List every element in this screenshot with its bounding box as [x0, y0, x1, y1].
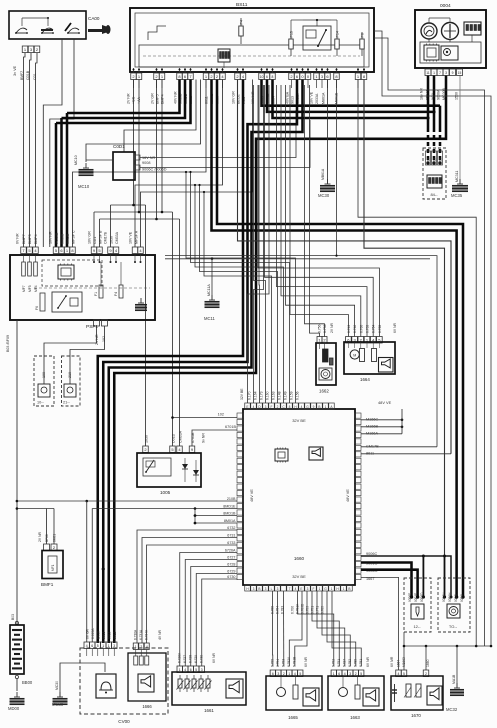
- svg-text:8MD1B: 8MD1B: [223, 512, 236, 516]
- svg-text:102: 102: [102, 336, 106, 342]
- svg-text:6.754: 6.754: [276, 606, 280, 614]
- svg-text:6733: 6733: [227, 541, 235, 545]
- svg-text:MF5: MF5: [28, 285, 32, 292]
- svg-text:MC10: MC10: [74, 155, 78, 165]
- svg-text:1: 1: [108, 644, 110, 648]
- svg-text:6728: 6728: [227, 563, 235, 567]
- svg-text:BMF1: BMF1: [41, 582, 54, 587]
- svg-text:TO--: TO--: [449, 624, 458, 629]
- svg-text:MC35: MC35: [451, 193, 463, 198]
- svg-text:6.706: 6.706: [291, 606, 295, 614]
- svg-text:F1: F1: [94, 292, 98, 296]
- svg-text:6.753: 6.753: [306, 606, 310, 614]
- svg-text:CD1: CD1: [93, 237, 97, 244]
- svg-text:6.755: 6.755: [271, 606, 275, 614]
- svg-text:CM33A: CM33A: [115, 231, 119, 244]
- svg-text:6.734A: 6.734A: [145, 629, 149, 640]
- svg-text:F15: F15: [290, 31, 294, 38]
- svg-text:16V GR: 16V GR: [88, 231, 92, 244]
- svg-text:3: 3: [253, 587, 255, 591]
- svg-text:6.756: 6.756: [318, 324, 322, 333]
- svg-text:11: 11: [426, 71, 430, 75]
- svg-text:10: 10: [260, 75, 264, 79]
- svg-text:6V NR: 6V NR: [304, 656, 308, 667]
- svg-text:6V GR: 6V GR: [86, 628, 90, 639]
- svg-text:16V VE: 16V VE: [310, 91, 314, 104]
- svg-text:7: 7: [439, 71, 441, 75]
- svg-text:MD00: MD00: [8, 706, 20, 711]
- svg-text:CD1: CD1: [33, 73, 37, 80]
- svg-text:4: 4: [295, 587, 297, 591]
- svg-text:9: 9: [313, 405, 315, 409]
- svg-text:6.730: 6.730: [200, 655, 204, 663]
- svg-text:1663: 1663: [350, 715, 360, 720]
- svg-text:2V NR: 2V NR: [330, 322, 334, 333]
- svg-text:MC11: MC11: [204, 316, 216, 321]
- svg-text:9013: 9013: [102, 631, 106, 639]
- svg-text:9012B: 9012B: [66, 233, 70, 244]
- svg-text:1661: 1661: [204, 708, 214, 713]
- svg-text:9v NR: 9v NR: [202, 433, 206, 443]
- svg-text:6.156: 6.156: [296, 391, 300, 400]
- svg-text:E: E: [246, 405, 248, 409]
- svg-text:1665: 1665: [288, 715, 298, 720]
- svg-text:8M01: 8M01: [53, 534, 57, 542]
- svg-text:6.173: 6.173: [260, 391, 264, 400]
- svg-text:4V NR: 4V NR: [158, 629, 162, 640]
- svg-text:48V VE: 48V VE: [250, 489, 254, 502]
- svg-text:18v NR: 18v NR: [420, 88, 424, 100]
- svg-text:9013: 9013: [291, 96, 295, 104]
- svg-text:1030: 1030: [145, 435, 149, 443]
- svg-text:6.730A: 6.730A: [134, 629, 138, 640]
- svg-text:MC30: MC30: [52, 702, 64, 707]
- svg-text:21--: 21--: [63, 401, 70, 405]
- svg-text:1: 1: [343, 587, 345, 591]
- svg-text:1030: 1030: [110, 236, 114, 244]
- svg-text:6V NR: 6V NR: [366, 656, 370, 667]
- svg-text:6.148: 6.148: [278, 391, 282, 400]
- svg-text:F4: F4: [114, 292, 118, 296]
- svg-text:9006C /9006D: 9006C /9006D: [142, 168, 167, 172]
- svg-text:MPSF C: MPSF C: [72, 230, 76, 244]
- svg-text:MB61A: MB61A: [321, 168, 325, 180]
- svg-text:9012: 9012: [108, 631, 112, 639]
- svg-text:1: 1: [102, 644, 104, 648]
- svg-text:8: 8: [272, 75, 274, 79]
- svg-text:6.729: 6.729: [194, 655, 198, 663]
- svg-text:M: M: [353, 353, 356, 357]
- svg-text:210: 210: [68, 372, 72, 378]
- svg-text:MC30: MC30: [318, 193, 330, 198]
- svg-text:BMF4: BMF4: [161, 94, 165, 104]
- svg-text:6V NR: 6V NR: [393, 322, 397, 333]
- svg-text:9013: 9013: [427, 158, 431, 165]
- svg-text:9012: 9012: [113, 631, 117, 639]
- svg-text:8611: 8611: [205, 96, 209, 104]
- svg-text:4: 4: [301, 405, 303, 409]
- svg-text:5: 5: [97, 644, 99, 648]
- svg-text:1: 1: [325, 405, 327, 409]
- svg-text:1: 1: [331, 587, 333, 591]
- svg-text:MC311: MC311: [455, 171, 459, 182]
- svg-text:0004: 0004: [440, 3, 451, 9]
- svg-text:1: 1: [319, 587, 321, 591]
- svg-text:B: B: [318, 405, 320, 409]
- svg-text:6.727: 6.727: [183, 655, 187, 663]
- svg-text:1: 1: [135, 645, 137, 649]
- svg-text:48V VE: 48V VE: [346, 489, 350, 502]
- svg-text:E: E: [300, 587, 302, 591]
- svg-text:32V BE: 32V BE: [240, 388, 244, 400]
- svg-text:9006I: 9006I: [454, 594, 458, 602]
- svg-text:6.754: 6.754: [372, 325, 376, 333]
- svg-text:B: B: [258, 587, 260, 591]
- svg-text:6.739: 6.739: [366, 325, 370, 333]
- svg-text:B03 /BF09: B03 /BF09: [6, 335, 10, 352]
- svg-text:F6: F6: [35, 306, 39, 310]
- svg-text:6.163: 6.163: [272, 391, 276, 400]
- svg-text:3: 3: [445, 71, 447, 75]
- svg-text:3: 3: [307, 587, 309, 591]
- svg-text:1: 1: [433, 71, 435, 75]
- svg-text:6.149: 6.149: [284, 391, 288, 400]
- svg-text:9001F: 9001F: [414, 593, 418, 602]
- svg-text:BMF4: BMF4: [34, 234, 38, 244]
- svg-text:10V NR: 10V NR: [251, 91, 255, 104]
- svg-text:1667: 1667: [397, 660, 401, 667]
- svg-text:3v VE: 3v VE: [13, 65, 17, 76]
- svg-text:6.758: 6.758: [323, 324, 327, 333]
- svg-text:6.703D: 6.703D: [301, 603, 305, 614]
- svg-text:9001H: 9001H: [448, 592, 452, 602]
- svg-text:MF7: MF7: [22, 285, 26, 292]
- svg-text:MC10: MC10: [78, 184, 90, 189]
- svg-text:MF4: MF4: [34, 285, 38, 292]
- svg-text:6.771: 6.771: [316, 606, 320, 614]
- svg-text:4: 4: [253, 405, 255, 409]
- svg-text:6.728: 6.728: [189, 655, 193, 663]
- svg-text:F4: F4: [240, 20, 244, 24]
- svg-text:6.751: 6.751: [311, 606, 315, 614]
- svg-text:MC30: MC30: [55, 681, 59, 690]
- svg-text:6.159: 6.159: [290, 391, 294, 400]
- svg-text:6726A: 6726A: [225, 549, 236, 553]
- svg-text:48V VE: 48V VE: [378, 400, 392, 405]
- svg-text:9006H: 9006H: [442, 592, 446, 602]
- svg-text:210B: 210B: [227, 497, 236, 501]
- svg-text:9: 9: [452, 71, 454, 75]
- svg-text:2: 2: [140, 645, 142, 649]
- svg-text:8M01A: 8M01A: [224, 519, 236, 523]
- svg-text:6731: 6731: [227, 534, 235, 538]
- svg-text:6.760: 6.760: [359, 325, 363, 333]
- svg-text:F: F: [271, 405, 273, 409]
- svg-text:6.783: 6.783: [281, 606, 285, 614]
- svg-text:9006E: 9006E: [408, 593, 412, 602]
- svg-text:1660: 1660: [426, 659, 430, 667]
- svg-text:6.160: 6.160: [266, 391, 270, 400]
- svg-text:XC10B: XC10B: [55, 232, 59, 244]
- svg-text:6727: 6727: [227, 556, 235, 560]
- svg-text:BMF5: BMF5: [28, 234, 32, 244]
- svg-text:MF1: MF1: [51, 564, 55, 571]
- svg-text:3: 3: [113, 644, 115, 648]
- svg-text:6.781A: 6.781A: [296, 603, 300, 614]
- svg-text:1005: 1005: [160, 490, 171, 495]
- svg-text:16V VE: 16V VE: [129, 231, 133, 244]
- svg-text:9006D: 9006D: [420, 592, 424, 602]
- svg-text:6V NR: 6V NR: [212, 652, 216, 663]
- svg-text:9013B: 9013B: [61, 233, 65, 244]
- svg-text:CM17B: CM17B: [104, 231, 108, 244]
- svg-text:MA1B: MA1B: [452, 674, 456, 684]
- svg-text:1662: 1662: [319, 389, 329, 394]
- svg-text:2V GR: 2V GR: [151, 93, 155, 104]
- svg-text:6729: 6729: [227, 570, 235, 574]
- svg-text:6V MR: 6V MR: [390, 656, 394, 667]
- svg-text:6V NR: 6V NR: [16, 233, 20, 244]
- svg-text:L: L: [271, 587, 273, 591]
- svg-text:MC32: MC32: [446, 707, 458, 712]
- svg-text:6.728: 6.728: [378, 325, 382, 333]
- svg-text:84--: 84--: [430, 192, 438, 197]
- svg-text:12--: 12--: [413, 624, 421, 629]
- svg-text:B03: B03: [11, 614, 15, 620]
- svg-text:MPSF B: MPSF B: [99, 230, 103, 244]
- svg-text:6.170: 6.170: [248, 391, 252, 400]
- svg-text:8MD1E: 8MD1E: [223, 505, 236, 509]
- svg-text:32V BE: 32V BE: [292, 418, 306, 423]
- svg-text:6701B: 6701B: [191, 432, 195, 443]
- svg-text:B: B: [348, 587, 350, 591]
- svg-text:6732: 6732: [227, 526, 235, 530]
- svg-text:1670: 1670: [411, 713, 421, 718]
- svg-text:2V NR: 2V NR: [38, 531, 42, 542]
- svg-text:2: 2: [277, 405, 279, 409]
- svg-text:CM33A: CM33A: [179, 430, 183, 443]
- svg-text:1660: 1660: [294, 556, 305, 561]
- svg-text:2V NR: 2V NR: [127, 93, 131, 104]
- svg-text:D01D: D01D: [172, 433, 176, 443]
- svg-text:6701B: 6701B: [225, 425, 236, 429]
- svg-text:M861A: M861A: [322, 92, 326, 104]
- svg-text:8: 8: [289, 405, 291, 409]
- svg-text:15: 15: [458, 71, 462, 75]
- svg-text:3: 3: [265, 587, 267, 591]
- svg-text:6.749: 6.749: [347, 325, 351, 333]
- svg-text:F6: F6: [361, 33, 365, 37]
- svg-text:6.164: 6.164: [254, 391, 258, 400]
- svg-text:BB00: BB00: [22, 680, 33, 685]
- svg-text:F14: F14: [336, 31, 340, 38]
- svg-text:2033A: 2033A: [315, 93, 319, 104]
- svg-text:16V NR: 16V NR: [142, 156, 156, 160]
- svg-text:100: 100: [42, 372, 46, 378]
- svg-text:7: 7: [289, 587, 291, 591]
- svg-text:4: 4: [146, 645, 148, 649]
- svg-text:6730: 6730: [227, 575, 235, 579]
- svg-text:1664: 1664: [360, 377, 370, 382]
- svg-text:BMF7: BMF7: [22, 234, 26, 244]
- svg-text:9008: 9008: [142, 161, 150, 165]
- svg-text:40V BA: 40V BA: [286, 91, 290, 104]
- svg-text:40V NR: 40V NR: [174, 91, 178, 104]
- svg-text:F: F: [313, 587, 315, 591]
- svg-text:3: 3: [265, 405, 267, 409]
- svg-text:6: 6: [266, 75, 268, 79]
- svg-text:6.610A: 6.610A: [91, 628, 95, 639]
- svg-text:6.726A: 6.726A: [178, 652, 182, 663]
- svg-text:6.731A: 6.731A: [139, 629, 143, 640]
- svg-text:6.748: 6.748: [353, 325, 357, 333]
- svg-text:6.754: 6.754: [276, 659, 280, 667]
- svg-text:8413: 8413: [433, 158, 437, 165]
- svg-text:102: 102: [218, 413, 224, 417]
- svg-text:10V NR: 10V NR: [49, 231, 53, 244]
- svg-text:10--: 10--: [37, 401, 44, 405]
- svg-text:3: 3: [277, 587, 279, 591]
- svg-text:CA00: CA00: [88, 16, 100, 21]
- svg-text:MC11A: MC11A: [207, 284, 211, 296]
- svg-text:16V GR: 16V GR: [232, 91, 236, 104]
- svg-text:6.705: 6.705: [321, 606, 325, 614]
- svg-text:D010: D010: [97, 631, 101, 639]
- svg-text:9015: 9015: [439, 158, 443, 165]
- svg-text:9006A: 9006A: [437, 89, 441, 100]
- svg-text:CV00: CV00: [118, 719, 130, 724]
- svg-text:9001I: 9001I: [460, 594, 464, 602]
- svg-text:1666: 1666: [142, 704, 152, 709]
- svg-text:MPSF A: MPSF A: [135, 230, 139, 244]
- svg-text:32V BE: 32V BE: [292, 574, 306, 579]
- svg-text:4: 4: [86, 644, 88, 648]
- svg-text:C0D1: C0D1: [113, 144, 125, 149]
- svg-text:6: 6: [91, 644, 93, 648]
- svg-text:BF08: BF08: [45, 534, 49, 542]
